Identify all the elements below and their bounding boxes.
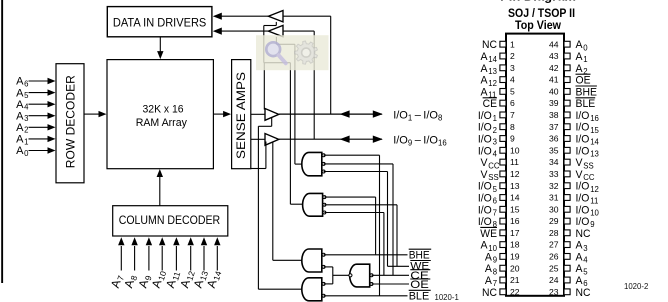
svg-text:I/O: I/O xyxy=(576,110,590,122)
pin 9 label I/O3 xyxy=(478,134,497,147)
svg-text:OE: OE xyxy=(410,279,429,291)
pin 28 label NC xyxy=(576,228,591,240)
svg-text:5: 5 xyxy=(493,185,498,194)
wire G3 input from G5 xyxy=(324,266,333,268)
pin 3 stub xyxy=(500,65,506,71)
pin 10 stub xyxy=(500,147,506,153)
block ROW DECODER xyxy=(56,64,84,183)
gate G5 (chip+output enable) xyxy=(350,264,373,287)
svg-text:V: V xyxy=(576,157,584,169)
node A10 (column address input) xyxy=(149,268,169,290)
svg-text:2: 2 xyxy=(510,51,515,61)
wire A11 to COLUMN DECODER xyxy=(173,237,179,270)
pin 16 stub xyxy=(500,218,506,224)
svg-text:9: 9 xyxy=(493,256,497,265)
pin 12 stub xyxy=(500,171,506,177)
svg-text:I/O: I/O xyxy=(576,204,590,216)
pin 6 label CE xyxy=(483,98,497,110)
node A9 (column address input) xyxy=(135,273,153,290)
svg-text:A: A xyxy=(481,51,489,63)
pin 24 label A6 xyxy=(576,275,588,288)
wire G5 input OE (to OE net) xyxy=(372,283,410,285)
svg-text:1020-2: 1020-2 xyxy=(624,282,648,291)
pin 11 label VCC xyxy=(481,157,500,170)
svg-text:A: A xyxy=(16,76,24,88)
svg-text:14: 14 xyxy=(590,138,599,147)
node A13 (column address input) xyxy=(191,268,211,290)
svg-text:5: 5 xyxy=(510,87,515,97)
pin 8 label I/O2 xyxy=(478,122,497,135)
svg-text:29: 29 xyxy=(549,216,559,226)
wire G1 input CE xyxy=(324,164,393,275)
pin 36 stub xyxy=(564,136,570,142)
node A3 (row address input) xyxy=(16,110,28,123)
pin 33 stub xyxy=(564,171,570,177)
svg-text:33: 33 xyxy=(549,169,559,179)
gate G1 (write enable upper byte) xyxy=(302,152,325,175)
svg-text:36: 36 xyxy=(549,134,559,144)
svg-text:3: 3 xyxy=(583,244,587,253)
wire A6 to ROW DECODER xyxy=(29,78,56,84)
pin 22 stub xyxy=(500,289,506,295)
svg-text:8: 8 xyxy=(493,267,497,276)
svg-text:CE: CE xyxy=(483,98,497,110)
svg-text:12: 12 xyxy=(488,79,497,88)
pin 41 stub xyxy=(564,77,570,83)
gate G2 (write enable lower byte) xyxy=(303,193,326,216)
svg-text:40: 40 xyxy=(549,87,559,97)
pin 40 label BHE xyxy=(576,86,597,98)
svg-text:28: 28 xyxy=(549,228,559,238)
svg-text:14: 14 xyxy=(488,55,497,64)
svg-text:1: 1 xyxy=(24,137,28,146)
svg-text:I/O: I/O xyxy=(576,181,590,193)
svg-text:4: 4 xyxy=(583,256,588,265)
svg-text:DATA IN DRIVERS: DATA IN DRIVERS xyxy=(113,15,207,29)
svg-text:COLUMN DECODER: COLUMN DECODER xyxy=(119,213,221,227)
svg-text:1020-1: 1020-1 xyxy=(435,293,459,302)
pin 30 label I/O10 xyxy=(576,204,600,217)
pin 1 stub xyxy=(500,41,506,47)
svg-text:16: 16 xyxy=(590,114,599,123)
svg-text:4: 4 xyxy=(24,103,29,112)
pin 14 stub xyxy=(500,195,506,201)
svg-text:5: 5 xyxy=(583,267,588,276)
wire B1 output to DATA IN DRIVERS xyxy=(213,13,269,20)
svg-text:V: V xyxy=(481,169,489,181)
svg-text:A: A xyxy=(485,251,493,263)
svg-text:A: A xyxy=(481,75,489,87)
svg-text:6: 6 xyxy=(493,197,497,206)
pin 14 label I/O6 xyxy=(478,193,497,206)
svg-text:16: 16 xyxy=(438,139,447,148)
node OE xyxy=(410,279,430,291)
svg-text:3: 3 xyxy=(510,63,515,73)
svg-text:38: 38 xyxy=(549,110,559,120)
svg-text:A: A xyxy=(576,51,584,63)
wire A14 to COLUMN DECODER xyxy=(214,237,220,270)
pin 37 stub xyxy=(564,124,570,130)
wire B3 enable branch xyxy=(263,63,265,110)
node I/O1 - I/O8 xyxy=(393,109,442,122)
pin 35 stub xyxy=(564,147,570,153)
pin 25 stub xyxy=(564,265,570,271)
pin 17 stub xyxy=(500,230,506,236)
wire SENSE AMPS corner stub xyxy=(251,142,266,169)
svg-text:–: – xyxy=(415,109,422,121)
svg-text:31: 31 xyxy=(549,193,559,203)
wire A8 to COLUMN DECODER xyxy=(131,237,137,270)
svg-text:A: A xyxy=(481,86,489,98)
svg-text:I/O: I/O xyxy=(478,145,492,157)
wire I/O9-I/O16 bus xyxy=(279,136,383,143)
svg-text:NC: NC xyxy=(482,39,497,51)
svg-text:3: 3 xyxy=(493,138,497,147)
svg-text:I/O: I/O xyxy=(393,135,408,147)
svg-text:I/O: I/O xyxy=(478,216,492,228)
wire COLUMN DECODER to RAM xyxy=(157,169,163,206)
buffer B4 (I/O9-16 output) xyxy=(265,134,279,146)
svg-text:27: 27 xyxy=(549,240,559,250)
node BHE xyxy=(409,249,432,261)
node A14 (column address input) xyxy=(204,268,224,290)
svg-text:18: 18 xyxy=(510,240,520,250)
svg-text:WE: WE xyxy=(480,228,497,240)
svg-text:30: 30 xyxy=(549,204,559,214)
gate G3 (read enable upper byte) xyxy=(302,249,325,272)
svg-text:43: 43 xyxy=(549,51,559,61)
svg-text:A: A xyxy=(16,99,24,111)
wire B2 input from I/O9-16 bus xyxy=(283,31,314,139)
svg-text:37: 37 xyxy=(549,122,559,132)
svg-text:10: 10 xyxy=(590,209,599,218)
svg-text:1: 1 xyxy=(493,114,497,123)
pin 44 stub xyxy=(564,41,570,47)
svg-text:22: 22 xyxy=(510,287,520,297)
pin 16 label I/O8 xyxy=(478,216,497,229)
block SENSE AMPS xyxy=(232,60,251,169)
pin 43 stub xyxy=(564,53,570,59)
pin 13 label I/O5 xyxy=(478,181,498,194)
svg-text:A: A xyxy=(16,122,24,134)
svg-text:4: 4 xyxy=(510,75,515,85)
pin 18 label A10 xyxy=(481,240,498,253)
svg-text:A: A xyxy=(485,275,493,287)
buffer B2 (data-in lower) xyxy=(268,25,283,36)
wire B2 enable from gate G1 xyxy=(276,37,295,164)
wire B4 enable from gate G3 xyxy=(273,142,303,260)
svg-text:A: A xyxy=(576,240,584,252)
svg-text:NC: NC xyxy=(576,228,591,240)
svg-text:A: A xyxy=(16,110,24,122)
svg-text:Top View: Top View xyxy=(515,18,562,32)
svg-text:15: 15 xyxy=(510,204,520,214)
node A7 (column address input) xyxy=(108,273,126,290)
svg-text:I/O: I/O xyxy=(478,204,492,216)
svg-text:A: A xyxy=(481,240,489,252)
pin 28 stub xyxy=(564,230,570,236)
svg-text:12: 12 xyxy=(510,169,520,179)
wire B2 output to DATA IN DRIVERS xyxy=(213,28,269,35)
svg-text:0: 0 xyxy=(583,43,588,52)
svg-text:I/O: I/O xyxy=(423,109,438,121)
pin 25 label A5 xyxy=(576,263,589,276)
svg-text:2: 2 xyxy=(493,126,497,135)
pin 21 label A7 xyxy=(485,275,497,288)
svg-text:A: A xyxy=(576,263,584,275)
svg-text:3: 3 xyxy=(24,114,28,123)
svg-text:32K x 16: 32K x 16 xyxy=(143,103,184,115)
node A1 (row address input) xyxy=(16,134,28,147)
node BLE xyxy=(409,290,431,302)
svg-text:BHE: BHE xyxy=(409,249,430,261)
svg-text:I/O: I/O xyxy=(478,181,492,193)
pin 18 stub xyxy=(500,242,506,248)
svg-text:1: 1 xyxy=(583,55,587,64)
pin 39 stub xyxy=(564,100,570,106)
svg-text:9: 9 xyxy=(590,220,594,229)
svg-text:13: 13 xyxy=(590,150,599,159)
svg-text:25: 25 xyxy=(549,263,559,273)
svg-text:A: A xyxy=(16,134,24,146)
svg-text:A: A xyxy=(576,39,584,51)
svg-text:13: 13 xyxy=(488,67,497,76)
svg-text:17: 17 xyxy=(510,228,520,238)
svg-text:16: 16 xyxy=(510,216,520,226)
svg-text:1: 1 xyxy=(510,39,515,49)
svg-text:7: 7 xyxy=(493,209,497,218)
svg-text:–: – xyxy=(415,135,422,147)
svg-text:32: 32 xyxy=(549,181,559,191)
wire A5 to ROW DECODER xyxy=(29,89,56,95)
svg-text:SS: SS xyxy=(583,161,593,170)
svg-text:34: 34 xyxy=(549,157,559,167)
pin 41 label OE xyxy=(576,74,591,86)
node A6 (row address input) xyxy=(16,76,28,89)
pin 4 stub xyxy=(500,77,506,83)
wire A9 to COLUMN DECODER xyxy=(146,237,152,270)
wire B3 enable from gate G4 xyxy=(258,117,302,289)
svg-text:NC: NC xyxy=(576,287,591,299)
wire G1 input BLE xyxy=(324,155,380,296)
svg-text:2: 2 xyxy=(24,126,28,135)
pin 40 stub xyxy=(564,89,570,95)
wire A4 to ROW DECODER xyxy=(29,101,56,107)
svg-text:A: A xyxy=(576,275,584,287)
pin 33 label VCC xyxy=(576,169,595,182)
node A2 (row address input) xyxy=(16,122,28,135)
svg-text:41: 41 xyxy=(549,75,559,85)
svg-text:21: 21 xyxy=(510,275,520,285)
pin 27 stub xyxy=(564,242,570,248)
svg-text:7: 7 xyxy=(510,110,515,120)
pin 29 label I/O9 xyxy=(576,216,595,229)
wire G2 input WE xyxy=(324,205,397,266)
svg-text:A: A xyxy=(481,63,489,75)
wire G3 input BHE (to BHE net) xyxy=(324,254,408,256)
block COLUMN DECODER xyxy=(113,206,228,236)
pin 37 label I/O15 xyxy=(576,122,600,135)
pin 19 label A9 xyxy=(485,251,497,264)
svg-text:0: 0 xyxy=(24,149,29,158)
svg-text:I/O: I/O xyxy=(576,134,590,146)
wire WE net xyxy=(388,265,410,267)
svg-text:9: 9 xyxy=(510,134,515,144)
svg-text:A: A xyxy=(16,145,24,157)
wire SENSE AMPS to B4 xyxy=(251,138,265,140)
pin 38 stub xyxy=(564,112,570,118)
pin 9 stub xyxy=(500,136,506,142)
pin 17 label WE xyxy=(480,227,497,239)
svg-text:I/O: I/O xyxy=(576,193,590,205)
wire DATA IN DRIVERS to RAM xyxy=(157,37,163,59)
pin 12 label VSS xyxy=(481,169,499,182)
pin 11 stub xyxy=(500,159,506,165)
svg-text:9: 9 xyxy=(408,139,412,148)
pin 22 label NC xyxy=(482,287,497,299)
wire ROW DECODER to RAM xyxy=(84,111,107,117)
pin 10 label I/O4 xyxy=(478,145,498,158)
pin 31 stub xyxy=(564,195,570,201)
svg-text:11: 11 xyxy=(510,157,519,167)
pin 23 label NC xyxy=(576,287,591,299)
pin 7 label I/O1 xyxy=(478,110,497,123)
svg-text:I/O: I/O xyxy=(576,216,590,228)
svg-text:14: 14 xyxy=(211,270,223,282)
wire G2 output xyxy=(290,203,302,205)
wire A3 to ROW DECODER xyxy=(29,113,56,119)
svg-text:CC: CC xyxy=(488,161,500,170)
pin 13 stub xyxy=(500,183,506,189)
svg-text:35: 35 xyxy=(549,145,559,155)
svg-text:A: A xyxy=(576,251,584,263)
pin 15 label I/O7 xyxy=(478,204,497,217)
gate G4 (read enable lower byte) xyxy=(302,278,325,301)
pin 5 label A11 xyxy=(481,86,497,99)
pin 42 label A2 xyxy=(576,63,588,76)
svg-text:8: 8 xyxy=(510,122,515,132)
svg-text:I/O: I/O xyxy=(423,135,438,147)
pin 43 label A1 xyxy=(576,51,588,64)
package outline U1 (44-pin SOJ/TSOP II) xyxy=(506,34,564,296)
svg-text:8: 8 xyxy=(438,113,442,122)
svg-text:A: A xyxy=(16,87,24,99)
block 32K x 16 RAM Array xyxy=(107,60,213,169)
wire SENSE AMPS to B3 xyxy=(251,113,265,115)
wire RAM to SENSE AMPS xyxy=(213,111,231,117)
pin 1 label NC xyxy=(482,39,497,51)
pin 26 stub xyxy=(564,254,570,260)
node A5 (row address input) xyxy=(16,87,29,100)
svg-text:ROW DECODER: ROW DECODER xyxy=(64,75,78,168)
svg-text:5: 5 xyxy=(24,91,29,100)
svg-text:BLE: BLE xyxy=(576,98,596,110)
svg-text:1: 1 xyxy=(408,113,412,122)
pin 30 stub xyxy=(564,206,570,212)
pin 15 stub xyxy=(500,206,506,212)
svg-text:V: V xyxy=(576,169,584,181)
pin 34 label VSS xyxy=(576,157,594,170)
svg-text:39: 39 xyxy=(549,98,559,108)
node A11 (column address input) xyxy=(163,269,182,290)
svg-text:I/O: I/O xyxy=(576,145,590,157)
wire B1 input from I/O1-8 bus xyxy=(283,16,331,114)
pin 42 stub xyxy=(564,65,570,71)
svg-text:10: 10 xyxy=(510,145,520,155)
svg-text:I/O: I/O xyxy=(393,109,408,121)
pin 35 label I/O13 xyxy=(576,145,599,158)
wire B1 enable from gate G2 xyxy=(264,22,291,204)
svg-text:OE: OE xyxy=(576,75,591,87)
pin 20 label A8 xyxy=(485,263,497,276)
pin 7 stub xyxy=(500,112,506,118)
pin 3 label A13 xyxy=(481,63,497,76)
pin 34 stub xyxy=(564,159,570,165)
svg-text:42: 42 xyxy=(549,63,559,73)
svg-text:19: 19 xyxy=(510,252,520,262)
buffer B1 (data-in upper) xyxy=(268,11,283,22)
svg-text:6: 6 xyxy=(24,79,28,88)
pin 5 stub xyxy=(500,89,506,95)
svg-text:I/O: I/O xyxy=(478,134,492,146)
svg-text:4: 4 xyxy=(493,150,498,159)
pin 4 label A12 xyxy=(481,75,497,88)
pin 2 stub xyxy=(500,53,506,59)
svg-text:13: 13 xyxy=(510,181,520,191)
svg-text:24: 24 xyxy=(549,275,559,285)
wire G1 output xyxy=(295,163,302,165)
svg-text:20: 20 xyxy=(510,263,520,273)
wire A12 to COLUMN DECODER xyxy=(188,237,194,270)
svg-text:BLE: BLE xyxy=(409,291,430,302)
svg-text:NC: NC xyxy=(482,287,497,299)
wire G4 input BLE (to BLE net) xyxy=(324,295,408,297)
pin 38 label I/O16 xyxy=(576,110,599,123)
wire G5 output bracket xyxy=(333,267,349,284)
svg-text:RAM Array: RAM Array xyxy=(136,117,188,129)
svg-text:I/O: I/O xyxy=(576,122,590,134)
pin 26 label A4 xyxy=(576,251,589,264)
svg-text:I/O: I/O xyxy=(478,122,492,134)
pin 23 stub xyxy=(564,289,570,295)
node CE xyxy=(410,270,430,282)
wire A13 to COLUMN DECODER xyxy=(201,237,207,270)
svg-text:SENSE AMPS: SENSE AMPS xyxy=(234,72,248,159)
node A0 (row address input) xyxy=(16,145,29,158)
pin 27 label A3 xyxy=(576,240,588,253)
wire A0 to ROW DECODER xyxy=(29,147,56,153)
svg-text:11: 11 xyxy=(590,197,598,206)
buffer B3 (I/O1-8 output) xyxy=(265,109,279,121)
pin 8 stub xyxy=(500,124,506,130)
pin 31 label I/O11 xyxy=(576,193,599,206)
wire G5 input CE (to CE net) xyxy=(372,274,410,276)
wire A1 to ROW DECODER xyxy=(29,136,56,142)
svg-text:Pin Diagram: Pin Diagram xyxy=(500,0,576,4)
pin 2 label A14 xyxy=(481,51,498,64)
block DATA IN DRIVERS xyxy=(107,7,212,37)
wire A10 to COLUMN DECODER xyxy=(159,237,165,270)
pin 32 stub xyxy=(564,183,570,189)
svg-text:A: A xyxy=(576,63,584,75)
svg-text:14: 14 xyxy=(510,193,520,203)
node A8 (column address input) xyxy=(121,273,139,290)
svg-text:6: 6 xyxy=(510,98,515,108)
wire G4 input from G5 xyxy=(324,283,333,285)
node A12 (column address input) xyxy=(177,268,197,290)
svg-text:15: 15 xyxy=(590,126,599,135)
node WE xyxy=(410,261,431,273)
